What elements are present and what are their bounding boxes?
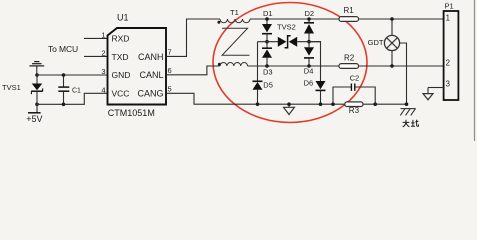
node: C1 top [62, 73, 66, 77]
wire: pin 2 stub [84, 55, 108, 57]
svg-text:1: 1 [446, 14, 450, 23]
TVS diode TVS1 [31, 75, 43, 104]
wire: GND rail to pin 3 [37, 74, 108, 76]
wire: CANH rail R1 to P1 [359, 18, 444, 20]
diode D5 [253, 81, 263, 104]
svg-text:GDT: GDT [368, 38, 384, 47]
svg-text:TVS1: TVS1 [2, 83, 21, 92]
svg-text:7: 7 [168, 47, 172, 56]
svg-text:4: 4 [101, 85, 105, 94]
wire: P1 pin3 to chassis ground [428, 87, 444, 89]
node: GDT bottom [390, 64, 394, 68]
sheet border [474, 0, 476, 141]
diode D4 [304, 42, 314, 66]
node: GND junction [35, 73, 39, 77]
transformer T1 [220, 19, 250, 66]
wire: right bracket to D6 [309, 42, 321, 81]
svg-text:T1: T1 [230, 8, 239, 17]
svg-text:+5V: +5V [26, 114, 42, 124]
svg-text:C2: C2 [350, 74, 360, 83]
svg-text:P1: P1 [445, 2, 454, 11]
node: D2 top [307, 17, 311, 21]
resistor R3 [345, 102, 363, 107]
svg-text:VCC: VCC [112, 89, 130, 99]
wire: left bracket to D5 [257, 42, 259, 82]
capacitor C1 [58, 75, 69, 104]
svg-text:U1: U1 [117, 12, 129, 22]
svg-text:D6: D6 [304, 79, 314, 88]
wire: pin 1 stub [84, 37, 108, 39]
diode D1 [262, 19, 272, 42]
svg-text:TXD: TXD [112, 52, 129, 62]
svg-text:D5: D5 [263, 81, 273, 90]
resistor R1 [339, 17, 359, 22]
wire: CANL rail T1 to R2 [248, 65, 339, 67]
node: earth junction [405, 102, 409, 106]
svg-text:RXD: RXD [112, 34, 130, 44]
svg-text:GND: GND [112, 70, 131, 80]
gas discharge tube GDT [384, 19, 406, 104]
node: D1-D3 midpoint [265, 40, 269, 44]
resistor R2 [339, 64, 359, 69]
red highlight ellipse [213, 3, 367, 123]
svg-text:R3: R3 [349, 106, 360, 115]
svg-text:2: 2 [446, 59, 450, 68]
wire: CANG pin5 to bottom rail [166, 93, 345, 104]
svg-text:CANG: CANG [137, 89, 163, 99]
capacitor C2 [333, 84, 375, 105]
wire: CANH pin7 to T1 [166, 19, 220, 56]
svg-text:3: 3 [101, 67, 105, 76]
ground (mid, protective) [284, 104, 295, 114]
svg-text:To MCU: To MCU [48, 44, 78, 54]
node: D3 bottom [265, 64, 269, 68]
svg-text:C1: C1 [72, 87, 81, 94]
svg-text:D2: D2 [305, 9, 315, 18]
node: T1 bottom phase dot [218, 63, 221, 66]
svg-text:TVS2: TVS2 [277, 22, 296, 31]
wire: bottom rail R3 to earth node [363, 103, 407, 105]
node: D5 bottom [256, 102, 260, 106]
svg-text:3: 3 [446, 79, 450, 88]
node: D4 bottom [307, 64, 311, 68]
svg-text:6: 6 [168, 66, 172, 75]
node: C2 left [331, 102, 335, 106]
svg-text:D4: D4 [304, 67, 314, 76]
svg-text:1: 1 [101, 30, 105, 39]
diode D2 [304, 19, 314, 42]
diode D3 [262, 42, 272, 66]
ground symbol (top-left GND) [29, 62, 44, 75]
svg-text:D3: D3 [263, 67, 273, 76]
node: T1 top phase dot [217, 21, 220, 24]
TVS diode TVS2 [258, 36, 322, 48]
node: C1 bottom [62, 103, 66, 107]
label earth (da di) [403, 120, 419, 127]
svg-text:2: 2 [101, 48, 105, 57]
svg-text:R2: R2 [344, 53, 355, 62]
wire: CANL rail R2 to P1 [359, 65, 444, 67]
node: GDT top [390, 17, 394, 21]
svg-text:5: 5 [168, 84, 172, 93]
wire: +5V rail [37, 93, 108, 104]
connector P1 [444, 11, 459, 100]
earth symbol [400, 109, 415, 116]
wire: CANH rail T1 to R1 [250, 18, 339, 20]
svg-text:CANH: CANH [138, 52, 164, 62]
node: D2-D4 midpoint [307, 40, 311, 44]
node: D1 top [265, 17, 269, 21]
svg-text:D1: D1 [263, 9, 273, 18]
wire: CANL pin6 to T1 [166, 66, 220, 75]
node: +5V junction [35, 103, 39, 107]
node: C2 right [373, 102, 377, 106]
power symbol +5V [28, 104, 41, 113]
node: mid ground junction [287, 102, 291, 106]
svg-text:CTM1051M: CTM1051M [108, 108, 155, 118]
IC U1 CTM1051M [108, 28, 167, 105]
svg-text:CANL: CANL [139, 70, 163, 80]
diode D6 [316, 81, 326, 104]
chassis ground at P1 pin 3 [423, 88, 433, 100]
node: D6 bottom [319, 102, 323, 106]
svg-text:R1: R1 [344, 6, 355, 15]
